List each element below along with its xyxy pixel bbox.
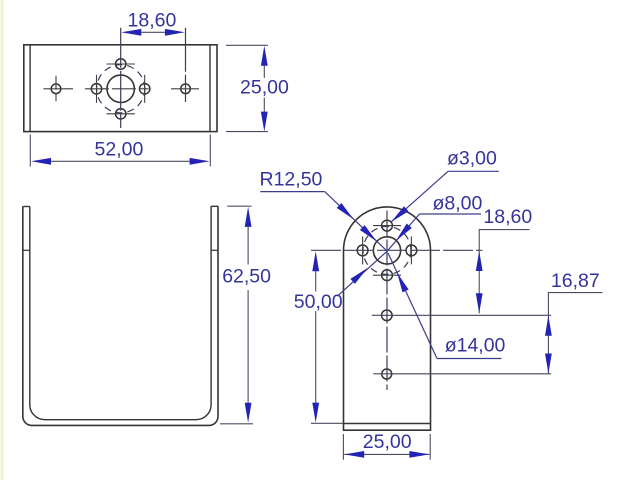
small hole top — [116, 59, 126, 69]
scan stripe left edge — [1, 0, 4, 480]
vertical centerline pattern (ext of dim 18,60) — [120, 28, 122, 128]
crosshair bottom small hole side — [373, 274, 401, 276]
right wall bend tick — [211, 249, 218, 251]
crosshair left small hole vertical — [96, 75, 98, 103]
svg-text:ø8,00: ø8,00 — [433, 193, 483, 215]
svg-text:18,60: 18,60 — [483, 206, 532, 228]
crosshair right small hole side vertical — [410, 236, 412, 264]
side plate bottom flange line — [344, 423, 431, 425]
center hole Ø8 side view — [373, 237, 400, 264]
svg-text:R12,50: R12,50 — [260, 169, 323, 191]
svg-text:52,00: 52,00 — [95, 139, 144, 161]
svg-text:16,87: 16,87 — [551, 270, 600, 292]
side plate outline — [344, 207, 431, 430]
left wall bend tick — [23, 249, 30, 251]
top view outline — [24, 45, 217, 132]
svg-text:ø14,00: ø14,00 — [445, 334, 506, 356]
lower hole 1 crosshair + ext line to right — [372, 314, 551, 316]
small hole bottom — [116, 109, 126, 119]
small hole left side view — [357, 245, 368, 256]
dimension 18,60 (top) — [121, 10, 185, 36]
U channel inner contour — [30, 206, 211, 419]
bolt circle Ø14 side view (dashed) — [363, 226, 411, 274]
top view right bend line — [209, 45, 211, 132]
leader Ø14,00 — [388, 253, 506, 359]
lower hole 1 — [382, 310, 393, 321]
lower hole 2 crosshair + ext line to right — [373, 373, 551, 375]
leader R12,50 — [260, 169, 388, 252]
crosshair left small hole side vertical — [362, 236, 364, 264]
vertical centerline right outer hole (ext of dim 18,60) — [185, 28, 187, 102]
svg-text:62,50: 62,50 — [222, 265, 271, 287]
small hole right side view — [406, 245, 417, 256]
leader Ø3,00 — [391, 148, 499, 222]
top view left bend line — [29, 45, 31, 132]
vertical centerline side view — [386, 211, 388, 391]
crosshair top small hole side — [373, 225, 401, 227]
right wall top cap — [211, 205, 218, 207]
vertical centerline left outer hole — [55, 76, 57, 102]
dimension 52,00 (below top view) — [30, 135, 210, 167]
svg-text:ø3,00: ø3,00 — [447, 148, 497, 170]
dimension 50,00 (left of side view) — [294, 251, 343, 423]
svg-text:25,00: 25,00 — [363, 431, 412, 453]
horizontal centerline pattern — [85, 88, 149, 90]
dimension 25,00 (right of top view) — [226, 45, 289, 131]
dimension 16,87 — [545, 270, 603, 374]
dimension 18,60 (right view) — [476, 206, 533, 313]
small hole bottom side view — [382, 270, 393, 281]
svg-text:18,60: 18,60 — [128, 10, 177, 32]
dimension 62,50 — [220, 206, 271, 424]
left wall top cap — [23, 206, 30, 208]
center hole Ø8 top view — [107, 75, 134, 102]
lower hole 2 — [382, 369, 392, 379]
outer hole right — [181, 84, 191, 94]
horizontal centerline left hole — [43, 88, 73, 90]
crosshair right small hole vertical — [144, 75, 146, 103]
outer hole left — [51, 84, 61, 94]
U channel outer contour — [23, 206, 218, 425]
dimension 25,00 (below side view) — [343, 431, 430, 460]
svg-text:50,00: 50,00 — [294, 291, 343, 313]
leader Ø8,00 — [337, 193, 482, 297]
small hole right — [140, 84, 150, 94]
small hole top side view — [382, 220, 393, 231]
crosshair top small hole — [107, 63, 135, 65]
crosshair bottom small hole — [107, 113, 135, 115]
svg-text:25,00: 25,00 — [240, 77, 289, 99]
bolt circle Ø14 top view (dashed) — [97, 65, 145, 113]
small hole left — [91, 84, 101, 94]
horizontal centerline pattern side view + ext lines — [311, 249, 482, 251]
horizontal centerline right hole — [171, 88, 199, 90]
